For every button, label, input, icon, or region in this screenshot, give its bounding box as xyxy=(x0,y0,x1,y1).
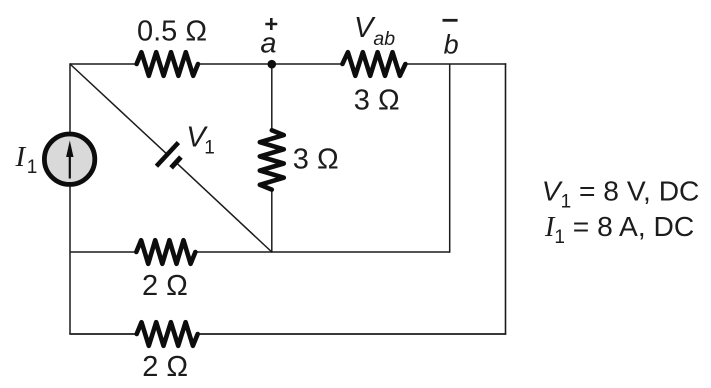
svg-text:3 Ω: 3 Ω xyxy=(354,85,400,117)
svg-text:a: a xyxy=(260,27,276,59)
node b minus sign xyxy=(443,19,458,22)
current source I1 arrow shaft xyxy=(69,150,71,179)
wire right vertical xyxy=(505,63,507,335)
wire middle-row right segment xyxy=(195,251,449,253)
resistor R 2 ohm middle xyxy=(136,240,195,264)
wire diagonal lower (battery V1 to bottom node) xyxy=(176,163,271,252)
svg-text:V1 = 8 V, DC: V1 = 8 V, DC xyxy=(542,174,700,212)
svg-text:1: 1 xyxy=(27,157,38,178)
current source I1 arrow head xyxy=(66,141,73,158)
wire left vertical xyxy=(69,63,71,334)
node a plus sign xyxy=(265,18,277,30)
resistor R 3 ohm vertical xyxy=(260,130,284,189)
wire diagonal upper (to battery V1) xyxy=(70,64,167,155)
battery V1 short plate xyxy=(171,157,181,168)
wire top-middle segment (a to Vab resistor) xyxy=(198,63,342,65)
resistor Vab 3 ohm xyxy=(342,52,405,76)
svg-text:2 Ω: 2 Ω xyxy=(142,270,188,302)
wire top-right segment xyxy=(405,63,506,65)
svg-text:3 Ω: 3 Ω xyxy=(293,143,339,175)
wire node-a vertical lower xyxy=(271,190,273,253)
svg-text:0.5 Ω: 0.5 Ω xyxy=(137,15,207,47)
current source I1 circle xyxy=(44,134,94,184)
resistor R 0.5 ohm xyxy=(137,52,198,76)
wire node-b vertical xyxy=(449,64,451,253)
svg-text:2 Ω: 2 Ω xyxy=(142,351,188,383)
wire node-a vertical upper xyxy=(271,64,273,130)
battery V1 long plate xyxy=(156,143,178,167)
svg-text:I: I xyxy=(15,141,27,173)
wire bottom-left segment xyxy=(69,333,136,335)
svg-text:b: b xyxy=(444,30,459,60)
svg-text:I1 = 8 A, DC: I1 = 8 A, DC xyxy=(544,210,694,248)
wire top-left segment xyxy=(70,63,137,65)
svg-text:1: 1 xyxy=(204,137,215,158)
wire bottom-right segment xyxy=(198,333,507,335)
wire middle-row left segment xyxy=(70,251,136,253)
node a dot xyxy=(268,60,277,69)
resistor R 2 ohm bottom xyxy=(137,322,198,346)
svg-text:Vab: Vab xyxy=(354,12,395,50)
